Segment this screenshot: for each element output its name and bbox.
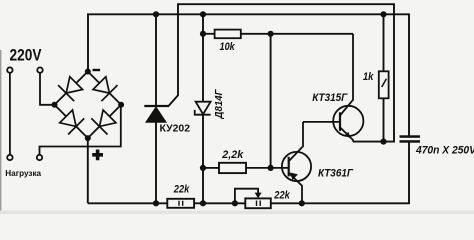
wire: gate link line over the top [169,4,395,141]
svg-text:КУ202: КУ202 [160,124,191,135]
wire: load B to bridge right node [40,105,121,155]
svg-text:КТ361Г: КТ361Г [318,168,354,180]
label plus [92,150,103,161]
label 22k (fixed) [173,184,190,196]
node: 220V terminal A [7,67,12,72]
svg-text:1k: 1k [363,71,375,83]
node: 10k right junction [268,31,274,37]
node: rail junction at zener [200,11,206,17]
label 1k [363,71,375,83]
svg-text:2,2k: 2,2k [221,149,244,161]
node: load terminal A [7,155,12,160]
label 22k (trimmer) [273,189,290,201]
node: rail junction at thyristor anode [153,11,159,17]
svg-text:Нагрузка: Нагрузка [5,169,41,178]
svg-text:10k: 10k [220,41,236,53]
node: rail junction at trimmer wiper [232,200,238,206]
label КТ315Г [312,92,348,104]
wire: bottom rail [88,143,409,204]
node: bridge bottom (plus) [85,135,91,141]
node: rail junction at zener bottom [200,200,206,206]
resistor 10k [203,30,353,39]
label КУ202 [160,124,191,135]
trimmer resistor 22k [235,189,271,209]
node: bridge top (minus) [85,69,91,75]
node: 2,2k to base junction [268,165,274,171]
resistor 2,2k [203,163,289,173]
node: bridge right [118,102,124,108]
label minus [93,69,101,71]
diode VD bottom-left (cathode at bottom node) [60,110,84,135]
node: 220V terminal B [37,67,42,72]
thyristor КУ202 [144,14,169,203]
resistor 22k (fixed) [167,199,194,208]
node: rail junction at thyristor cathode [153,200,159,206]
node: load terminal B [37,155,42,160]
wire: top rail (negative) [88,14,409,136]
capacitor 470n [400,135,421,142]
resistor 1k [379,14,389,141]
transistor КТ315Г (NPN) [303,34,363,142]
wire: 10k junction down to 2,2k line [270,34,272,168]
transistor КТ361Г (PNP) [282,122,311,203]
label Д814Г [214,89,225,120]
label Нагрузка (load) [5,169,41,178]
node: rail junction at КТ361Г emitter [299,200,305,206]
node: rail junction at 1k [380,11,386,17]
wire: bridge bottom node down to bottom rail [87,138,89,203]
node: zener to 2,2k junction [200,165,206,171]
node: bridge left [52,102,58,108]
label КТ361Г [318,168,354,180]
diode VD top-left (anode at top node) [58,77,83,102]
diode VD top-right (anode at top node) [93,77,118,102]
svg-text:220V: 220V [10,46,42,64]
label 10k [220,41,236,53]
svg-text:22k: 22k [173,184,190,196]
label 2,2k [221,149,244,161]
node: 1k bottom / emitter / gate junction [380,139,386,145]
svg-text:470n X 250V: 470n X 250V [415,145,474,157]
node: 10k left junction [200,31,206,37]
svg-text:Д814Г: Д814Г [214,89,225,120]
label 470n X 250V [415,145,474,157]
svg-text:22k: 22k [273,189,290,201]
svg-text:КТ315Г: КТ315Г [312,92,348,104]
zener diode Д814Г [195,14,211,203]
wire: 220V A down to load A [9,73,11,155]
bridge rectifier frame [55,72,122,139]
wire: 220V B to bridge left node [40,73,55,105]
label 220V [10,46,42,64]
diode VD bottom-right (cathode at bottom node) [91,110,116,135]
